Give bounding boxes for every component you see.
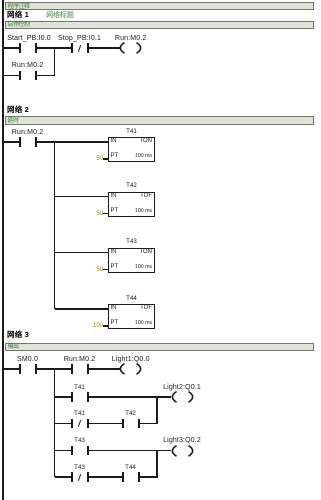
label network 1 title	[7, 11, 74, 20]
coil Light3:Q0.2	[170, 445, 195, 457]
wire SM0.0 to Run contact	[37, 368, 71, 370]
wire branch to T43 IN	[55, 252, 109, 254]
value 50 PT input of T41	[73, 156, 103, 162]
label T44	[126, 295, 137, 302]
wire T43 to Light3 coil	[89, 450, 171, 452]
wire rail to SM0.0	[2, 368, 20, 370]
wire Run contact to T41 IN	[37, 141, 108, 143]
contact Run:M0.2 net3	[71, 364, 73, 373]
wire T42 to junction	[140, 423, 158, 425]
label Light2:Q0.1	[163, 384, 201, 391]
label SM0.0	[17, 356, 38, 363]
label T42 (row3)	[125, 410, 136, 417]
contact Run:M0.2	[19, 71, 21, 80]
wire rail to Run contact	[2, 75, 20, 77]
wire output branch vertical net3	[54, 369, 56, 477]
coil Light1:Q0.0	[118, 363, 143, 375]
wire rail to Run contact net2	[2, 141, 20, 143]
label network 2	[7, 106, 29, 114]
label Light3:Q0.2	[163, 437, 201, 444]
wire Run contact to Light1 coil	[89, 368, 120, 370]
wire T41 to Light2 coil	[89, 396, 171, 398]
wire junction vertical row3 to row2	[156, 397, 158, 424]
wire T41 NC to T42	[89, 423, 123, 425]
label T41 (row3 NC)	[74, 410, 85, 417]
wire T44 to junction	[140, 476, 158, 478]
wire timer branch vertical	[54, 142, 56, 309]
label network 3	[7, 331, 29, 339]
label Run:M0.2 (net2)	[12, 129, 44, 136]
wire junction vertical row5 to row4	[156, 451, 158, 478]
timer T41 (TON)	[108, 137, 155, 162]
wire Stop_PB to coil	[89, 47, 120, 49]
wire Run contact to junction	[37, 75, 55, 77]
contact T41 NC	[71, 419, 73, 428]
contact SM0.0	[19, 364, 21, 373]
label Stop_PB:I0.1	[58, 35, 101, 42]
label T42	[126, 182, 137, 189]
label Run:M0.2 (contact net1)	[12, 62, 44, 69]
wire branch to T43 contact	[55, 450, 72, 452]
wire parallel branch vertical net1	[54, 48, 56, 76]
contact Stop_PB:I0.1 NC	[71, 43, 73, 52]
wire branch to T44 IN	[55, 308, 109, 310]
timer T44 (TOF)	[108, 304, 155, 329]
contact T41	[71, 392, 73, 401]
wire branch to T43 NC contact	[55, 476, 72, 478]
label T43 (row5 NC)	[74, 464, 85, 471]
left power rail	[2, 0, 4, 500]
comment bar 输出	[5, 343, 314, 351]
wire Start_PB to Stop_PB	[37, 47, 71, 49]
wire branch to T42 IN	[55, 196, 109, 198]
comment bar 延时	[5, 116, 314, 125]
timer T42 (TOF)	[108, 192, 155, 217]
wire branch to T41 contact	[55, 396, 72, 398]
label T43	[126, 238, 137, 245]
program comment bar 程序注释	[5, 2, 314, 10]
coil Run:M0.2	[118, 42, 143, 54]
wire T43 NC to T44	[89, 476, 123, 478]
timer T43 (TON)	[108, 248, 155, 273]
contact T43 NC	[71, 472, 73, 481]
label T41 (row2)	[74, 384, 85, 391]
coil Light2:Q0.1	[170, 391, 195, 403]
contact T44	[122, 472, 124, 481]
value 50 PT input of T42	[73, 211, 103, 217]
label Light1:Q0.0	[112, 356, 150, 363]
wire branch to T41 NC contact	[55, 423, 72, 425]
label T43 (row4)	[74, 437, 85, 444]
value 100 PT input of T44	[73, 323, 103, 329]
value 50 PT input of T43	[73, 267, 103, 273]
contact T43	[71, 446, 73, 455]
contact Start_PB:I0.0	[19, 43, 21, 52]
label Start_PB:I0.0	[7, 35, 51, 42]
label Run:M0.2 (net3)	[64, 356, 96, 363]
wire rail to Start_PB	[2, 47, 20, 49]
contact T42	[122, 419, 124, 428]
contact Run:M0.2 net2	[19, 137, 21, 146]
label T44 (row5)	[125, 464, 136, 471]
comment bar 启停控制	[5, 21, 314, 30]
label Run:M0.2 (coil net1)	[115, 35, 147, 42]
label T41	[126, 128, 137, 135]
